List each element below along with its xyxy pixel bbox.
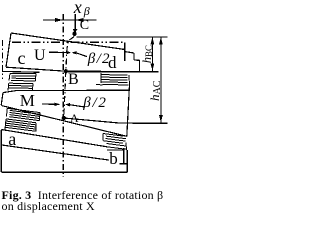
label d — [108, 54, 117, 71]
caption line 2 — [2, 200, 95, 212]
component guideway pack d — [96, 73, 130, 85]
node tilted centerline — [64, 14, 76, 118]
component guideway pack c — [8, 73, 36, 90]
block U outline — [2, 33, 140, 72]
component dimension hAC — [159, 37, 163, 123]
label U — [34, 48, 46, 64]
node original vertical centerline — [62, 14, 64, 177]
node A — [62, 116, 66, 120]
svg-text:hAC: hAC — [147, 80, 163, 101]
wire A reference line — [64, 118, 168, 123]
component guideway pack a — [5, 108, 40, 131]
label x_beta — [74, 0, 90, 17]
label a — [8, 130, 16, 148]
node B — [64, 69, 68, 73]
label c — [18, 49, 26, 67]
component guideway pack b — [103, 134, 127, 151]
label B — [68, 72, 79, 88]
node C arrow — [73, 20, 77, 34]
block base outline — [1, 130, 128, 173]
block M outline — [1, 85, 130, 137]
wire B reference line — [66, 70, 101, 72]
node beta/2 upper leader arrows — [49, 51, 87, 57]
label b — [109, 150, 118, 167]
caption line 1 — [2, 189, 164, 201]
node beta/2 lower leader arrows — [42, 103, 85, 107]
node phantom original top edge of U — [12, 41, 125, 43]
wire top reference line from C — [77, 36, 168, 38]
label beta/2 lower — [83, 96, 108, 111]
svg-text:hBC: hBC — [140, 45, 154, 63]
label C — [80, 19, 89, 33]
node C — [72, 32, 76, 36]
label M — [20, 92, 35, 109]
node x_beta dimension line — [43, 18, 97, 22]
label A — [70, 112, 79, 124]
node phantom original left edge of U — [2, 40, 4, 79]
component dimension hBC — [151, 37, 155, 71]
label beta/2 upper — [88, 52, 111, 67]
